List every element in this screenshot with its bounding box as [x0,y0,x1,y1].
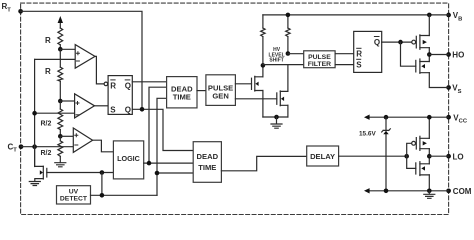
wire latch Q output [132,109,193,150]
wire latch2 Qbar to output gates [382,41,412,43]
ground (level shift) [271,117,282,128]
inverting bubble HO pmos [412,40,416,44]
wire UV detect output [91,194,158,196]
node VB resistor junction [286,13,291,18]
wire delay output to LO gates [339,155,407,157]
svg-text:UV: UV [69,189,79,196]
node HO [427,52,432,57]
block UV DETECT [57,186,91,204]
zener diode D1 15.6V [385,117,387,191]
wire logic output to dead time 2 [144,162,194,164]
wire HO pmos drain to HO [428,48,430,55]
node COM zener junction [384,189,389,194]
svg-text:S: S [356,60,362,69]
svg-text:LO: LO [453,152,464,161]
wire LO pmos drain to LO [428,149,430,157]
node 2/3 threshold [58,47,63,52]
wire UV net to dead time 2 [157,172,193,174]
svg-text:DELAY: DELAY [310,152,335,161]
node COM driver junction [427,189,432,194]
svg-text:DEAD: DEAD [197,152,219,161]
wire COM rail [369,190,448,192]
wire M1 drain to node A [262,65,264,76]
wire dead time 2 to delay [221,156,306,170]
pin VB [446,13,451,18]
wire VCC rail [369,116,448,118]
pin CT [19,144,24,149]
svg-text:R: R [356,49,362,58]
wire VB rail [263,14,449,16]
svg-text:PULSE: PULSE [308,54,331,61]
wire to HO nmos gate [401,42,416,66]
transistor M3 (CT discharge) [35,147,44,167]
pin RT [18,9,23,14]
pin COM [446,188,451,193]
block DEAD TIME 1 [167,77,197,108]
wire HO nmos source to VS [429,73,448,88]
node UV out junction [100,193,105,198]
wire LO to pin [429,155,448,157]
node A junction [261,63,266,68]
node gate junction [100,170,105,175]
svg-text:R/2: R/2 [41,121,52,128]
wire CT to comparator U1 - [35,58,76,60]
wire pulse gen out 2 to M2 gate [235,98,276,100]
node VCC driver junction [427,115,432,120]
latch U4 (oscillator RS flip-flop) [108,76,132,115]
svg-text:R: R [45,67,51,76]
svg-text:R/2: R/2 [41,150,52,157]
node HO gate junction [398,40,403,45]
svg-text:SHIFT: SHIFT [269,58,283,64]
block PULSE FILTER [304,51,335,68]
wire CT to comparator U3 - [21,146,73,148]
arrow VCC internal supply [364,115,370,120]
inverting bubble latch1 R [104,82,108,86]
wire HO nmos drain to HO [428,55,430,62]
resistor R/2 (upper) [59,101,61,109]
block PULSE GEN [206,75,236,106]
svg-text:COM: COM [453,187,472,196]
latch pin labels [110,37,380,115]
op-amp U3 comparator [73,128,92,152]
svg-text:TIME: TIME [198,163,216,172]
inverting bubble LO pmos [412,141,416,145]
arrow COM internal return [364,188,370,193]
wire LO nmos drain to LO [428,156,430,164]
svg-text:LOGIC: LOGIC [117,154,140,163]
transistor M2 (HV level shift) [276,93,278,104]
op-amp U2 comparator [75,94,95,118]
block DEAD TIME 2 [193,142,221,183]
svg-text:TIME: TIME [173,93,191,102]
node level shift ground junction [274,115,279,120]
ground (CT discharge) [29,182,40,186]
wire node B to pulse filter input 1 [288,53,304,55]
block LOGIC [113,141,143,179]
wire node1 to comparator U1 + [60,48,75,50]
resistor R (lower) [59,49,61,67]
svg-text:S: S [110,105,116,114]
svg-text:R: R [45,36,51,45]
svg-text:FILTER: FILTER [308,61,331,68]
wire M1 source down [262,91,264,118]
wire U1 output to latch R input [95,56,104,84]
wire CT vertical [34,59,36,166]
wire HO pmos source to VB [428,15,430,36]
svg-text:Q: Q [125,105,131,114]
node VB driver junction [427,13,432,18]
svg-text:Q: Q [125,81,131,90]
wire dead time 1 input 3 [157,98,167,195]
wire level shift source rail [263,116,288,118]
wire pulse filter to latch2 Sbar [335,64,354,66]
node CT junction [32,144,37,149]
node UV net junction [155,171,160,176]
wire node A to pulse filter input 2 [263,64,304,66]
node 1/6 threshold [58,134,63,139]
wire M2 source down [287,105,289,117]
svg-text:GEN: GEN [212,91,228,100]
node LO [427,154,432,159]
wire UV detect up link [101,173,103,196]
node Q feedback junction [140,107,145,112]
wire LO pmos source to VCC [428,117,430,138]
IC boundary dashed border [21,3,449,214]
supply arrow at top of divider chain [59,23,61,28]
wire LO nmos source to COM [428,175,430,191]
wire M3 gate line [47,172,114,174]
wire dead time 1 to pulse gen [197,90,206,92]
node VCC zener junction [384,115,389,120]
svg-text:HO: HO [452,51,464,60]
svg-text:15.6V: 15.6V [359,130,376,137]
resistor R2 pull-up [286,28,290,37]
svg-text:Q: Q [374,38,380,47]
wire pulse filter to latch2 Rbar [335,53,354,55]
transistor Q2 HO nmos [415,60,417,72]
ground (COM) [424,191,435,199]
op-amp U1 comparator [75,45,95,69]
transistor M1 (HV level shift) [251,78,253,89]
wire dead time 1 input 2 [149,87,167,163]
node logic out junction [147,161,152,166]
wire node2 to comparator U2 + [60,100,74,102]
pin HO [446,52,451,57]
wire CT to comparator U2 - [35,112,75,114]
wire latch Qbar to dead time 1 [132,81,166,83]
wire HO to pin [429,54,448,56]
wire pulse gen out 1 to M1 gate [235,83,251,85]
svg-text:R: R [110,81,116,90]
pin VS [446,85,451,90]
node B junction [286,51,291,56]
ground (divider chain) [55,163,66,167]
resistor R1 pull-up [262,15,264,28]
wire op3 output to logic [93,140,114,152]
wire U2 output to latch S input [95,105,109,107]
node 1/3 threshold [58,99,63,104]
wire to LO pmos gate [407,143,412,156]
transistor Q3 LO pmos [415,138,417,149]
pin LO [446,154,451,159]
transistor Q1 HO pmos [415,36,417,48]
resistor R/2 (lower) [59,136,61,141]
pin VCC [446,115,451,120]
wire to LO nmos gate [407,156,416,168]
wire RT feedback line [21,11,142,109]
resistor R (upper) [58,28,63,45]
transistor Q4 LO nmos [415,163,417,174]
block DELAY [307,146,339,166]
node LO gate junction [404,154,409,159]
wire node3 to comparator U3 + [60,135,73,137]
block text [60,47,335,202]
latch U5 (high side RS flip-flop) [354,31,382,72]
node CT to U2 junction [32,111,37,116]
wire M2 drain to node B [287,65,289,91]
svg-text:DETECT: DETECT [60,196,88,203]
